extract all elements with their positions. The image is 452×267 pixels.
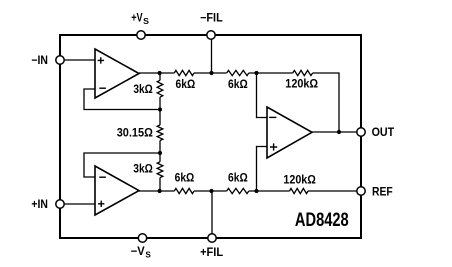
svg-text:6kΩ: 6kΩ bbox=[228, 78, 248, 91]
svg-text:6kΩ: 6kΩ bbox=[175, 172, 195, 185]
svg-text:3kΩ: 3kΩ bbox=[133, 163, 153, 176]
svg-text:+V: +V bbox=[131, 12, 143, 25]
svg-text:6kΩ: 6kΩ bbox=[176, 78, 196, 91]
svg-text:30.15Ω: 30.15Ω bbox=[117, 126, 153, 139]
svg-text:−V: −V bbox=[131, 245, 145, 258]
svg-text:3kΩ: 3kΩ bbox=[133, 83, 152, 96]
svg-text:REF: REF bbox=[372, 186, 393, 199]
svg-text:AD8428: AD8428 bbox=[295, 210, 349, 231]
svg-text:−IN: −IN bbox=[31, 54, 48, 67]
svg-text:+FIL: +FIL bbox=[200, 246, 223, 259]
svg-text:120kΩ: 120kΩ bbox=[283, 173, 316, 186]
svg-text:S: S bbox=[145, 251, 151, 260]
svg-text:−FIL: −FIL bbox=[200, 12, 223, 25]
svg-text:+IN: +IN bbox=[31, 198, 48, 211]
svg-text:120kΩ: 120kΩ bbox=[285, 77, 318, 90]
svg-text:S: S bbox=[143, 17, 150, 26]
svg-text:6kΩ: 6kΩ bbox=[228, 172, 248, 185]
svg-text:OUT: OUT bbox=[372, 126, 395, 139]
